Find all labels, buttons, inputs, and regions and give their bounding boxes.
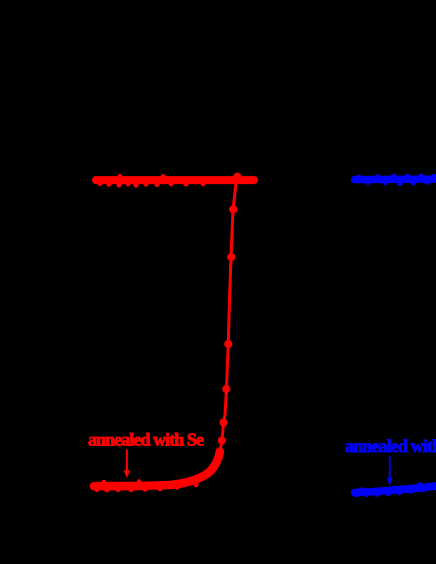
red data markers on transition — [216, 173, 242, 456]
blue curve: bottom branch — [354, 483, 436, 497]
svg-text:annealed with: annealed with — [345, 436, 436, 456]
red curve: sharp transition drop — [220, 181, 236, 452]
red curve: bottom flat branch (superconducting tail) — [94, 452, 220, 492]
red arrow — [124, 450, 131, 479]
red curve: top flat branch (normal state, annealed with Se) — [96, 174, 254, 187]
blue curve: top flat branch — [355, 174, 436, 186]
blue arrow — [387, 457, 393, 487]
svg-text:annealed with Se: annealed with Se — [88, 430, 204, 450]
